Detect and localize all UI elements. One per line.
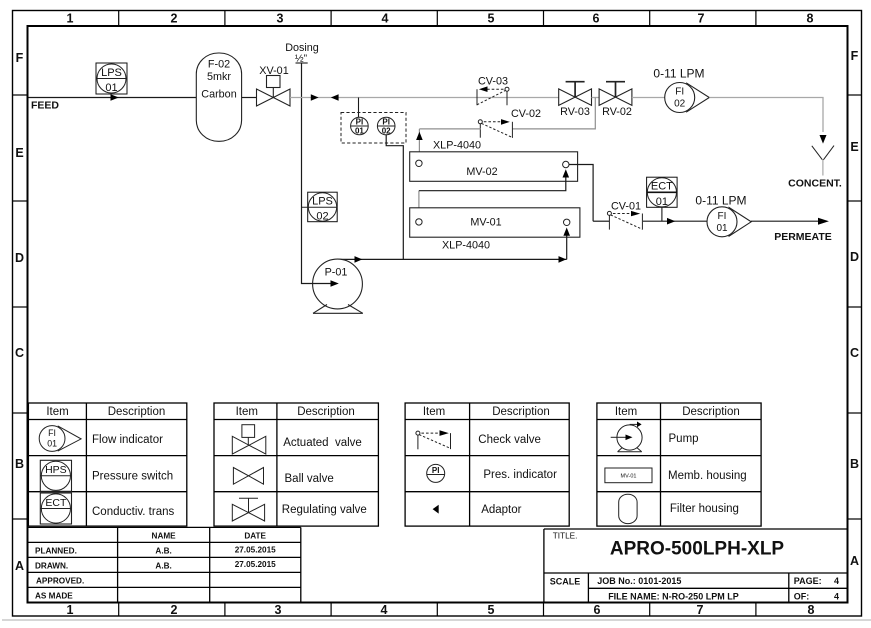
svg-text:MV-01: MV-01: [621, 474, 637, 480]
actuated valve XV-01: [257, 76, 291, 107]
svg-text:Pump: Pump: [669, 433, 699, 445]
svg-text:RV-02: RV-02: [602, 106, 632, 118]
svg-text:Pressure switch: Pressure switch: [92, 470, 173, 482]
svg-text:01: 01: [47, 439, 57, 449]
svg-text:01: 01: [355, 127, 364, 136]
pressure indicator PI-01: [351, 117, 369, 135]
svg-text:Actuated valve: Actuated valve: [283, 437, 362, 449]
svg-text:ECT: ECT: [45, 497, 67, 509]
bottom ruler ticks: [119, 603, 756, 617]
svg-text:4: 4: [382, 12, 389, 26]
svg-text:6: 6: [594, 603, 601, 617]
svg-text:OF:: OF:: [794, 591, 810, 601]
svg-text:FI: FI: [675, 87, 684, 98]
svg-text:Description: Description: [108, 406, 166, 418]
svg-text:TITLE.: TITLE.: [553, 531, 578, 540]
permeate arrow: [818, 218, 829, 225]
svg-text:Check valve: Check valve: [478, 434, 541, 446]
level switch LPS-02: [302, 192, 338, 222]
conductivity transmitter ECT-01 stem: [661, 207, 663, 221]
svg-text:XLP-4040: XLP-4040: [433, 140, 481, 152]
svg-text:Item: Item: [423, 406, 445, 418]
svg-text:A: A: [850, 554, 859, 568]
check valve CV-01: [607, 211, 642, 229]
svg-text:PAGE:: PAGE:: [794, 576, 822, 586]
pressure switch LPS-01: [96, 63, 127, 94]
page shadow line: [2, 619, 871, 621]
pipe RV-02 to FI-02: [632, 97, 665, 99]
bypass branch down from main line: [512, 98, 595, 129]
svg-text:JOB No.: 0101-2015: JOB No.: 0101-2015: [597, 576, 681, 586]
svg-text:P-01: P-01: [325, 267, 348, 279]
svg-text:MV-01: MV-01: [470, 217, 501, 229]
svg-text:Item: Item: [236, 406, 258, 418]
svg-text:A: A: [15, 559, 24, 573]
svg-text:8: 8: [808, 603, 815, 617]
svg-text:B: B: [15, 457, 24, 471]
svg-text:APRO-500LPH-XLP: APRO-500LPH-XLP: [610, 539, 785, 560]
svg-text:27.05.2015: 27.05.2015: [235, 560, 276, 569]
regulating valve RV-02: [599, 82, 632, 106]
left ruler letters: [15, 51, 24, 573]
svg-text:2: 2: [171, 12, 178, 26]
membrane housing MV-02: [410, 152, 578, 182]
svg-text:4: 4: [834, 591, 839, 601]
legend pressure indicator symbol: [427, 464, 445, 482]
pressure indicator PI-02: [377, 117, 395, 135]
svg-text:27.05.2015: 27.05.2015: [235, 546, 276, 555]
permeate pipe: [593, 220, 609, 222]
pipe CV-02 to MV-02 riser: [419, 128, 480, 130]
svg-text:AS MADE: AS MADE: [35, 591, 73, 600]
feed flow arrow: [111, 94, 119, 101]
flow arrow left: [331, 94, 339, 101]
flow indicator FI-02: [665, 83, 710, 113]
svg-text:Description: Description: [492, 406, 550, 418]
svg-text:C: C: [850, 346, 859, 360]
svg-text:Carbon: Carbon: [201, 89, 236, 101]
svg-text:5: 5: [488, 12, 495, 26]
svg-text:FEED: FEED: [31, 100, 59, 112]
svg-text:F-02: F-02: [208, 59, 230, 71]
svg-text:CV-02: CV-02: [511, 108, 541, 120]
svg-text:Adaptor: Adaptor: [481, 504, 521, 516]
main pipe XV-01 to RV-03: [290, 97, 559, 99]
svg-text:RV-03: RV-03: [560, 106, 590, 118]
svg-text:FI: FI: [718, 211, 727, 222]
svg-text:01: 01: [716, 223, 728, 234]
feed pipe: [29, 97, 197, 99]
right ruler letters: [850, 49, 859, 568]
svg-text:2: 2: [171, 603, 178, 617]
pipe RV-03 to RV-02: [592, 97, 600, 99]
pipe F-02 to XV-01: [242, 97, 257, 99]
svg-text:Flow indicator: Flow indicator: [92, 434, 163, 446]
svg-text:F: F: [851, 49, 859, 63]
svg-text:ECT: ECT: [651, 180, 673, 192]
svg-text:CV-03: CV-03: [478, 76, 508, 88]
flow arrow right: [311, 94, 319, 101]
dosing line down to pump: [302, 63, 313, 284]
svg-text:1: 1: [67, 12, 74, 26]
regulating valve RV-03: [559, 82, 592, 106]
svg-text:01: 01: [656, 196, 668, 208]
svg-text:FILE NAME: N-RO-250 LPM LP: FILE NAME: N-RO-250 LPM LP: [608, 591, 739, 601]
svg-text:02: 02: [316, 211, 328, 223]
svg-text:CV-01: CV-01: [611, 201, 641, 213]
svg-text:3: 3: [277, 12, 284, 26]
svg-text:Description: Description: [682, 406, 740, 418]
riser flow arrow up: [416, 132, 423, 140]
MV-02 left riser: [418, 129, 420, 160]
svg-text:PI: PI: [382, 117, 390, 126]
svg-text:PI: PI: [356, 117, 364, 126]
svg-text:D: D: [15, 251, 24, 265]
svg-text:4: 4: [381, 603, 388, 617]
check valve CV-02: [478, 120, 512, 138]
svg-text:8: 8: [807, 12, 814, 26]
top ruler numbers: [67, 12, 814, 26]
MV-01 feed arrow up: [563, 228, 570, 236]
svg-text:01: 01: [105, 82, 117, 94]
permeate flow arrow: [667, 218, 675, 225]
svg-text:CONCENT.: CONCENT.: [788, 178, 842, 190]
legend flow indicator symbol: [39, 426, 81, 452]
svg-text:02: 02: [382, 127, 391, 136]
legend conductivity transmitter symbol: [40, 493, 71, 524]
svg-text:Item: Item: [46, 406, 68, 418]
svg-text:Conductiv. trans: Conductiv. trans: [92, 506, 174, 518]
interconnect arrow up: [563, 169, 570, 177]
PI-02 sense line down to pump discharge: [386, 135, 403, 260]
svg-text:C: C: [15, 346, 24, 360]
check valve CV-03: [477, 87, 509, 105]
legend ball valve symbol: [233, 468, 263, 485]
svg-text:02: 02: [674, 99, 686, 110]
svg-text:5mkr: 5mkr: [207, 71, 231, 83]
pump discharge line: [338, 258, 567, 260]
legend regulating valve symbol: [232, 498, 264, 521]
MV-01 to MV-02 interconnect: [419, 174, 566, 191]
svg-text:Memb. housing: Memb. housing: [668, 470, 747, 482]
svg-text:XLP-4040: XLP-4040: [442, 240, 490, 252]
svg-text:7: 7: [697, 603, 704, 617]
legend adaptor symbol: [433, 505, 439, 514]
svg-text:DATE: DATE: [244, 532, 266, 541]
legend actuated valve symbol: [232, 425, 265, 454]
adaptor funnel: [812, 146, 834, 160]
branch to PI-01: [358, 98, 360, 118]
svg-text:7: 7: [698, 12, 705, 26]
svg-text:LPS: LPS: [101, 67, 122, 79]
svg-text:PLANNED.: PLANNED.: [35, 546, 77, 555]
top ruler ticks: [119, 11, 756, 27]
svg-text:FI: FI: [48, 428, 56, 438]
legend check valve symbol: [416, 431, 451, 449]
MV-02 outlet to permeate drop: [569, 165, 593, 222]
svg-text:PERMEATE: PERMEATE: [774, 231, 832, 243]
svg-text:NAME: NAME: [152, 532, 177, 541]
svg-text:Item: Item: [615, 406, 637, 418]
MV-01 left riser: [418, 191, 420, 219]
left ruler ticks: [13, 95, 28, 519]
svg-text:Regulating valve: Regulating valve: [282, 504, 367, 516]
bottom ruler numbers: [67, 603, 815, 617]
svg-text:5: 5: [488, 603, 495, 617]
svg-text:Filter housing: Filter housing: [670, 503, 739, 515]
legend pump symbol: [611, 424, 642, 451]
concentrate arrow down: [820, 135, 827, 144]
right ruler ticks: [848, 95, 862, 519]
discharge arrow 1: [355, 256, 363, 263]
svg-text:6: 6: [593, 12, 600, 26]
svg-text:HPS: HPS: [45, 464, 67, 476]
svg-text:0-11 LPM: 0-11 LPM: [695, 194, 746, 208]
conductivity transmitter ECT-01: [647, 177, 678, 208]
svg-text:Pres. indicator: Pres. indicator: [483, 469, 557, 481]
svg-text:E: E: [15, 146, 23, 160]
filter housing F-02: [196, 53, 241, 141]
svg-text:Description: Description: [297, 406, 355, 418]
svg-text:D: D: [850, 250, 859, 264]
svg-text:B: B: [850, 457, 859, 471]
legend pressure switch symbol: [40, 460, 71, 491]
legend membrane housing symbol: [605, 468, 652, 483]
membrane housing MV-01: [410, 208, 580, 237]
svg-text:LPS: LPS: [312, 196, 333, 208]
legend filter housing symbol: [619, 494, 637, 523]
svg-text:F: F: [16, 51, 24, 65]
svg-text:DRAWN.: DRAWN.: [35, 561, 68, 570]
pump P-01: [313, 259, 363, 313]
MV-01 feed riser: [566, 234, 568, 259]
svg-text:Ball valve: Ball valve: [285, 473, 334, 485]
flow indicator FI-01: [707, 207, 751, 237]
svg-text:A.B.: A.B.: [155, 546, 171, 555]
instrument panel dashed box: [341, 113, 406, 144]
svg-text:PI: PI: [432, 466, 440, 475]
svg-text:E: E: [850, 140, 858, 154]
svg-text:SCALE: SCALE: [550, 577, 581, 587]
concentrate pipe: [709, 98, 823, 133]
svg-text:A.B.: A.B.: [155, 561, 171, 570]
svg-text:1: 1: [67, 603, 74, 617]
svg-text:0-11 LPM: 0-11 LPM: [653, 67, 704, 81]
svg-text:MV-02: MV-02: [466, 166, 497, 178]
discharge arrow 2: [559, 256, 567, 263]
svg-text:3: 3: [275, 603, 282, 617]
svg-text:APPROVED.: APPROVED.: [36, 576, 84, 585]
svg-text:4: 4: [834, 576, 839, 586]
